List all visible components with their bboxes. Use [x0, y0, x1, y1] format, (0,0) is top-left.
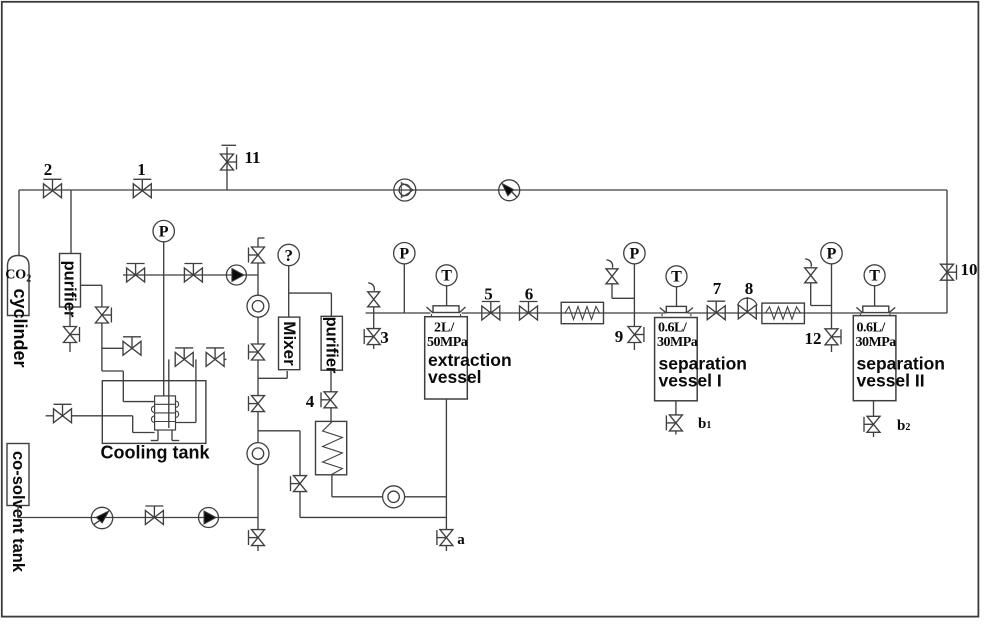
separation vessel II cap [863, 306, 889, 313]
svg-text:6: 6 [525, 285, 534, 304]
vent valve below purifier 1 [64, 327, 77, 343]
valve 2 [44, 184, 62, 198]
purifier 1 column [60, 254, 81, 308]
wire stub below column valve [257, 546, 259, 551]
svg-text:purifier: purifier [322, 317, 340, 374]
valve 1 [133, 184, 151, 198]
wire right down-leg to valve 10 [946, 190, 948, 313]
wire relief II down [810, 283, 812, 306]
wire mixer column lower [257, 378, 259, 395]
relief valve separation vessel I [606, 269, 618, 284]
relief valve separation vessel II [805, 268, 817, 283]
temperature gauge T separation I [666, 266, 687, 287]
valve above cooling tank left [175, 352, 193, 366]
valve on return branch [294, 476, 307, 492]
svg-text:50MPa: 50MPa [427, 335, 468, 350]
svg-text:4: 4 [306, 392, 315, 411]
wire below purifier 2 [330, 370, 332, 392]
wire stub below valve 12 [831, 345, 833, 352]
wire jog into cooling tank [102, 370, 123, 372]
valve b1 [669, 415, 682, 431]
wire mixer column to junction [257, 360, 259, 378]
wire branch to purifier 2 [289, 292, 332, 294]
valve 12 [825, 329, 838, 345]
wire coil feed inside tank [168, 359, 170, 428]
heater 2 element [766, 307, 801, 320]
svg-text:12: 12 [805, 329, 822, 348]
svg-text:9: 9 [615, 327, 624, 346]
valve a [440, 530, 453, 546]
purifier 2 column [321, 316, 342, 370]
gear pump lower on mixer column [247, 443, 269, 465]
heat exchanger zigzag [323, 422, 343, 475]
cooling coil [155, 396, 176, 430]
svg-text:P: P [630, 246, 640, 263]
wire stub below valve 9 [633, 343, 635, 351]
wire relief I down [611, 284, 613, 299]
CO2 cylinder vessel [8, 256, 30, 316]
wire drop to purifier [70, 190, 72, 254]
svg-text:Mixer: Mixer [280, 321, 299, 366]
valve mixer column lower [252, 396, 265, 412]
svg-text:2: 2 [44, 160, 53, 179]
valve on purifier branch [95, 307, 108, 323]
svg-text:2L/: 2L/ [434, 321, 455, 336]
valve 10 [941, 264, 954, 280]
relief valve near valve 3 [368, 292, 380, 307]
wire T stem to vessel cap [446, 286, 448, 306]
wire to gear pump lower [257, 412, 259, 443]
wire extraction vessel bottom stem [445, 399, 447, 530]
svg-text:1: 1 [137, 160, 146, 179]
valve 6 [520, 306, 538, 320]
wire valve 11 stem [226, 147, 228, 190]
pump circulation on top line [394, 179, 416, 201]
svg-text:P: P [827, 246, 837, 263]
wire valve 9 stem [633, 313, 635, 327]
side drain valve [123, 341, 141, 355]
valve above cooling tank right [206, 352, 224, 366]
wire coil return jog [195, 359, 197, 422]
valve 5 [482, 306, 500, 320]
svg-text:30MPa: 30MPa [856, 335, 897, 350]
pressure gauge P separation I [624, 243, 645, 264]
wire process line segment 1 [366, 312, 431, 314]
wire stub below valve b1 [675, 431, 677, 435]
wire separation II bottom stem [873, 401, 875, 417]
wire stub below valve 3 [373, 345, 375, 349]
svg-text:3: 3 [380, 328, 389, 347]
wire T stem separation II [874, 286, 876, 306]
svg-text:P: P [399, 246, 409, 263]
valve mixer column mid [252, 344, 265, 360]
cooling coil legs [157, 430, 159, 441]
wire stub right of tank valves [224, 358, 227, 360]
check valve arrow on top line [499, 180, 520, 201]
extraction vessel cap [433, 306, 459, 313]
valve 11 [221, 154, 234, 170]
question gauge [278, 244, 299, 265]
svg-text:vessel: vessel [428, 367, 482, 387]
wire below purifier 1 [69, 307, 71, 327]
svg-text:0.6L/: 0.6L/ [857, 321, 887, 336]
valve mixer column bottom [252, 530, 265, 546]
svg-text:Cooling tank: Cooling tank [101, 443, 211, 463]
mixer column vessel [279, 317, 300, 370]
svg-text:T: T [671, 269, 682, 286]
svg-text:5: 5 [484, 285, 493, 304]
svg-text:P: P [159, 224, 169, 241]
separation vessel I cap [666, 306, 686, 312]
pressure gauge P extraction [394, 243, 415, 264]
wire stub below valve b2 [873, 432, 875, 437]
wire stub below valve a [445, 546, 447, 551]
wire purifier branch down [101, 323, 103, 371]
valve on co-solvent line [145, 511, 163, 525]
heat exchanger box [316, 421, 347, 474]
wire branch to side valve [102, 347, 124, 349]
wire valve 4 to heat exchanger [330, 408, 332, 422]
wire pump to extraction vessel stem [405, 496, 447, 498]
pressure gauge P separation II [821, 243, 842, 264]
wire separation I bottom stem [675, 401, 677, 415]
heater 1 box [561, 302, 603, 323]
heater 2 box [762, 303, 805, 324]
gear pump upper on mixer column [247, 295, 269, 317]
svg-text:11: 11 [244, 148, 260, 167]
temperature gauge T separation II [864, 265, 885, 286]
wire mixer column mid [257, 317, 259, 344]
wire process line segment 2 [462, 312, 666, 314]
svg-text:7: 7 [713, 279, 722, 298]
valve 9 [628, 327, 641, 343]
wire T stem separation I [676, 287, 678, 307]
valve on left manifold 1 [127, 268, 145, 282]
heater 1 element [565, 307, 600, 320]
valve 3 [367, 329, 380, 345]
wire drop to CO2 cylinder [18, 190, 20, 256]
valve 7 [707, 306, 725, 320]
wire stub right of side drain valve [140, 347, 143, 349]
wire heat exchanger outlet [331, 475, 333, 497]
svg-text:8: 8 [745, 279, 754, 298]
wire stub below vent valve [69, 343, 71, 353]
wire top main CO2 supply line [19, 189, 947, 191]
cooling tank box [102, 381, 206, 444]
svg-text:30MPa: 30MPa [657, 335, 698, 350]
wire P stem separation II [831, 264, 833, 313]
wire return branch down and right [299, 492, 301, 518]
wire cooling water inlet [46, 415, 54, 417]
svg-text:vessel II: vessel II [857, 371, 925, 391]
svg-text:?: ? [284, 246, 293, 265]
svg-text:10: 10 [961, 260, 978, 279]
wire feed to mixer bottom [258, 377, 287, 379]
wire left manifold line [123, 274, 258, 276]
vent valve top of mixer column [252, 247, 265, 263]
wire process line segment 4 [890, 312, 948, 314]
wire P gauge stem down to coil [163, 242, 165, 396]
extraction vessel body [425, 317, 468, 399]
wire mixer column upper [257, 263, 259, 295]
svg-text:a: a [457, 532, 465, 548]
wire P stem to process line [403, 264, 405, 313]
co-solvent metering pump [91, 507, 112, 528]
svg-text:0.6L/: 0.6L/ [658, 321, 688, 336]
gear pump to extraction vessel [383, 486, 405, 508]
wire mixer column top stub [257, 238, 259, 247]
valve b2 [867, 416, 880, 432]
valve 4 [324, 392, 337, 408]
svg-text:T: T [441, 268, 452, 285]
wire relief to valve 3 [373, 307, 375, 329]
svg-text:vessel I: vessel I [659, 371, 722, 391]
valve on left manifold 2 [184, 268, 202, 282]
wire valve 12 stem [831, 313, 833, 329]
pump on co-solvent line [199, 508, 219, 528]
separation vessel II body [853, 316, 896, 401]
wire branch from column to return line [258, 430, 300, 432]
wire purifier 1 right connector [81, 284, 102, 286]
svg-text:T: T [869, 268, 880, 285]
wire P stem separation I [633, 264, 635, 313]
pump on left manifold [226, 265, 246, 285]
svg-text:cyclinder: cyclinder [10, 288, 30, 367]
wire mixer column bottom [257, 465, 259, 530]
separation vessel I body [655, 318, 698, 401]
wire co-solvent tank outlet [17, 506, 19, 518]
cooling water inlet valve [54, 409, 72, 423]
valve 8 [738, 305, 756, 319]
temperature gauge T extraction [436, 265, 457, 286]
wire gauge stem to mixer [288, 266, 290, 317]
wire process line segment 3 [688, 312, 863, 314]
wire into tank to coil bottom [72, 415, 133, 417]
pressure gauge P left [153, 220, 174, 241]
co-solvent tank [7, 444, 29, 506]
